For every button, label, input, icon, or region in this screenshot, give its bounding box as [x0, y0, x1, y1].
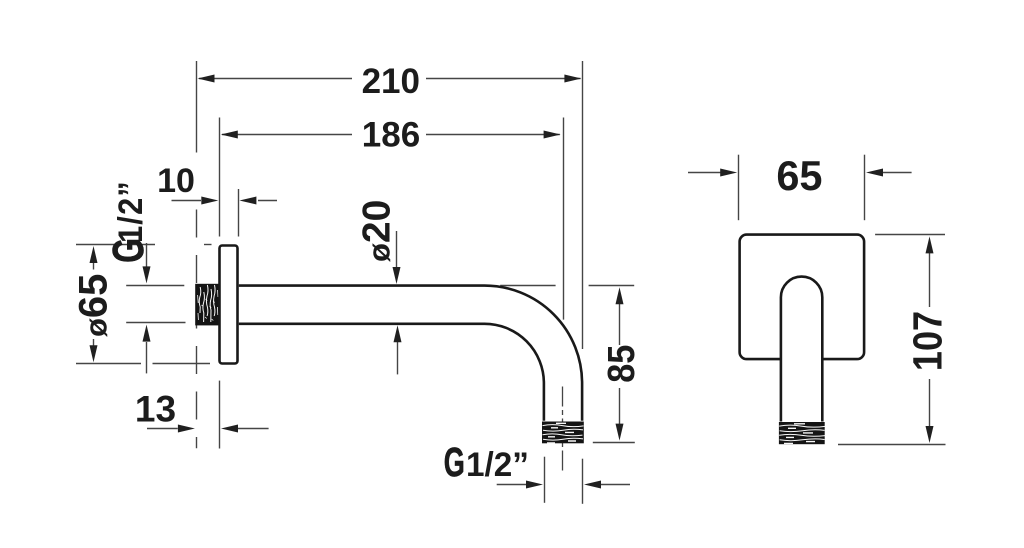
wall-side thread (textured) — [195, 284, 219, 326]
wall line (dashed) — [196, 210, 198, 449]
G1/2 bottom label with thread dimension — [497, 457, 630, 504]
centerline of down tube (dash-dot) — [562, 387, 564, 474]
svg-text:13: 13 — [135, 389, 176, 430]
dimension 10 — [172, 189, 278, 237]
dimension 107 — [838, 235, 946, 445]
escutcheon plate (front view) — [740, 235, 865, 360]
dimension d20 — [397, 231, 398, 374]
svg-text:107: 107 — [905, 311, 951, 371]
front tube — [781, 277, 822, 422]
svg-text:ø65: ø65 — [72, 274, 116, 337]
svg-text:1/2”: 1/2” — [466, 447, 529, 484]
dimension 186 — [220, 118, 564, 320]
G1/2 top-left label with thread dimension — [126, 243, 185, 373]
svg-text:186: 186 — [362, 116, 420, 155]
svg-text:1/2”: 1/2” — [112, 180, 150, 243]
dimension 85 — [500, 286, 635, 443]
svg-text:ø20: ø20 — [356, 200, 399, 262]
svg-text:10: 10 — [157, 162, 195, 200]
shower arm pipe (side view) — [239, 286, 582, 421]
dimension 210 — [197, 61, 583, 349]
down-tube thread (textured) — [542, 422, 584, 444]
svg-text:210: 210 — [362, 62, 420, 101]
dimension 13 — [147, 381, 269, 449]
dimension 65 — [688, 155, 912, 221]
label G1/2 rotated — [105, 180, 153, 263]
svg-text:G: G — [444, 441, 465, 486]
flange (side view) — [220, 246, 238, 364]
front thread (textured) — [779, 422, 825, 444]
svg-text:85: 85 — [599, 345, 642, 383]
dimension d65 — [76, 245, 212, 364]
svg-text:65: 65 — [776, 152, 822, 199]
